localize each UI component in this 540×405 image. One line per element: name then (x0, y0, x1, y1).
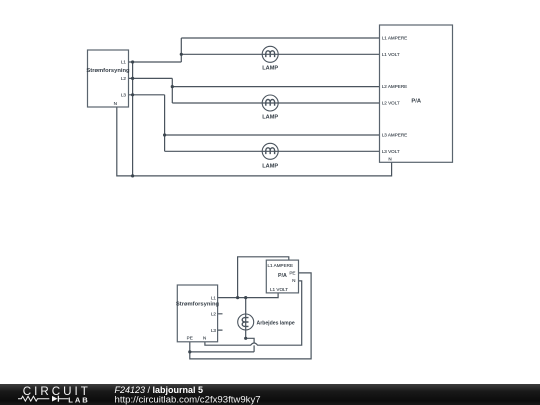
svg-text:L3: L3 (211, 328, 217, 333)
svg-text:P/A: P/A (411, 99, 421, 105)
svg-text:L2 AMPERE: L2 AMPERE (382, 84, 408, 89)
svg-text:L3 VOLT: L3 VOLT (382, 149, 400, 154)
svg-text:LAMP: LAMP (262, 115, 278, 121)
svg-text:L1 VOLT: L1 VOLT (382, 52, 400, 57)
svg-text:PE: PE (289, 271, 295, 276)
svg-text:L1 AMPERE: L1 AMPERE (382, 36, 408, 41)
svg-text:L1 AMPERE: L1 AMPERE (268, 263, 294, 268)
svg-text:http://circuitlab.com/c2fx93ft: http://circuitlab.com/c2fx93ftw9ky7 (115, 395, 261, 405)
svg-text:LAMP: LAMP (262, 163, 278, 169)
svg-text:L3: L3 (121, 93, 127, 98)
svg-text:PE: PE (187, 336, 193, 341)
svg-text:Arbejdes lampe: Arbejdes lampe (257, 320, 295, 326)
svg-text:L2: L2 (211, 312, 217, 317)
svg-text:L3 AMPERE: L3 AMPERE (382, 133, 408, 138)
svg-text:Strømforsyning: Strømforsyning (176, 302, 220, 308)
svg-text:LAMP: LAMP (262, 65, 278, 71)
svg-text:N: N (388, 157, 391, 162)
svg-text:F24123 / labjournal 5: F24123 / labjournal 5 (115, 385, 204, 395)
svg-text:L1 VOLT: L1 VOLT (270, 287, 288, 292)
svg-text:L1: L1 (211, 295, 217, 300)
svg-text:Strømforsyning: Strømforsyning (86, 68, 130, 74)
svg-text:L2: L2 (121, 76, 127, 81)
svg-text:N: N (292, 278, 295, 283)
svg-text:P/A: P/A (278, 273, 287, 279)
svg-text:L1: L1 (121, 60, 127, 65)
svg-text:N: N (114, 101, 117, 106)
svg-text:LAB: LAB (68, 395, 89, 404)
svg-text:L2 VOLT: L2 VOLT (382, 101, 400, 106)
svg-text:N: N (203, 336, 206, 341)
